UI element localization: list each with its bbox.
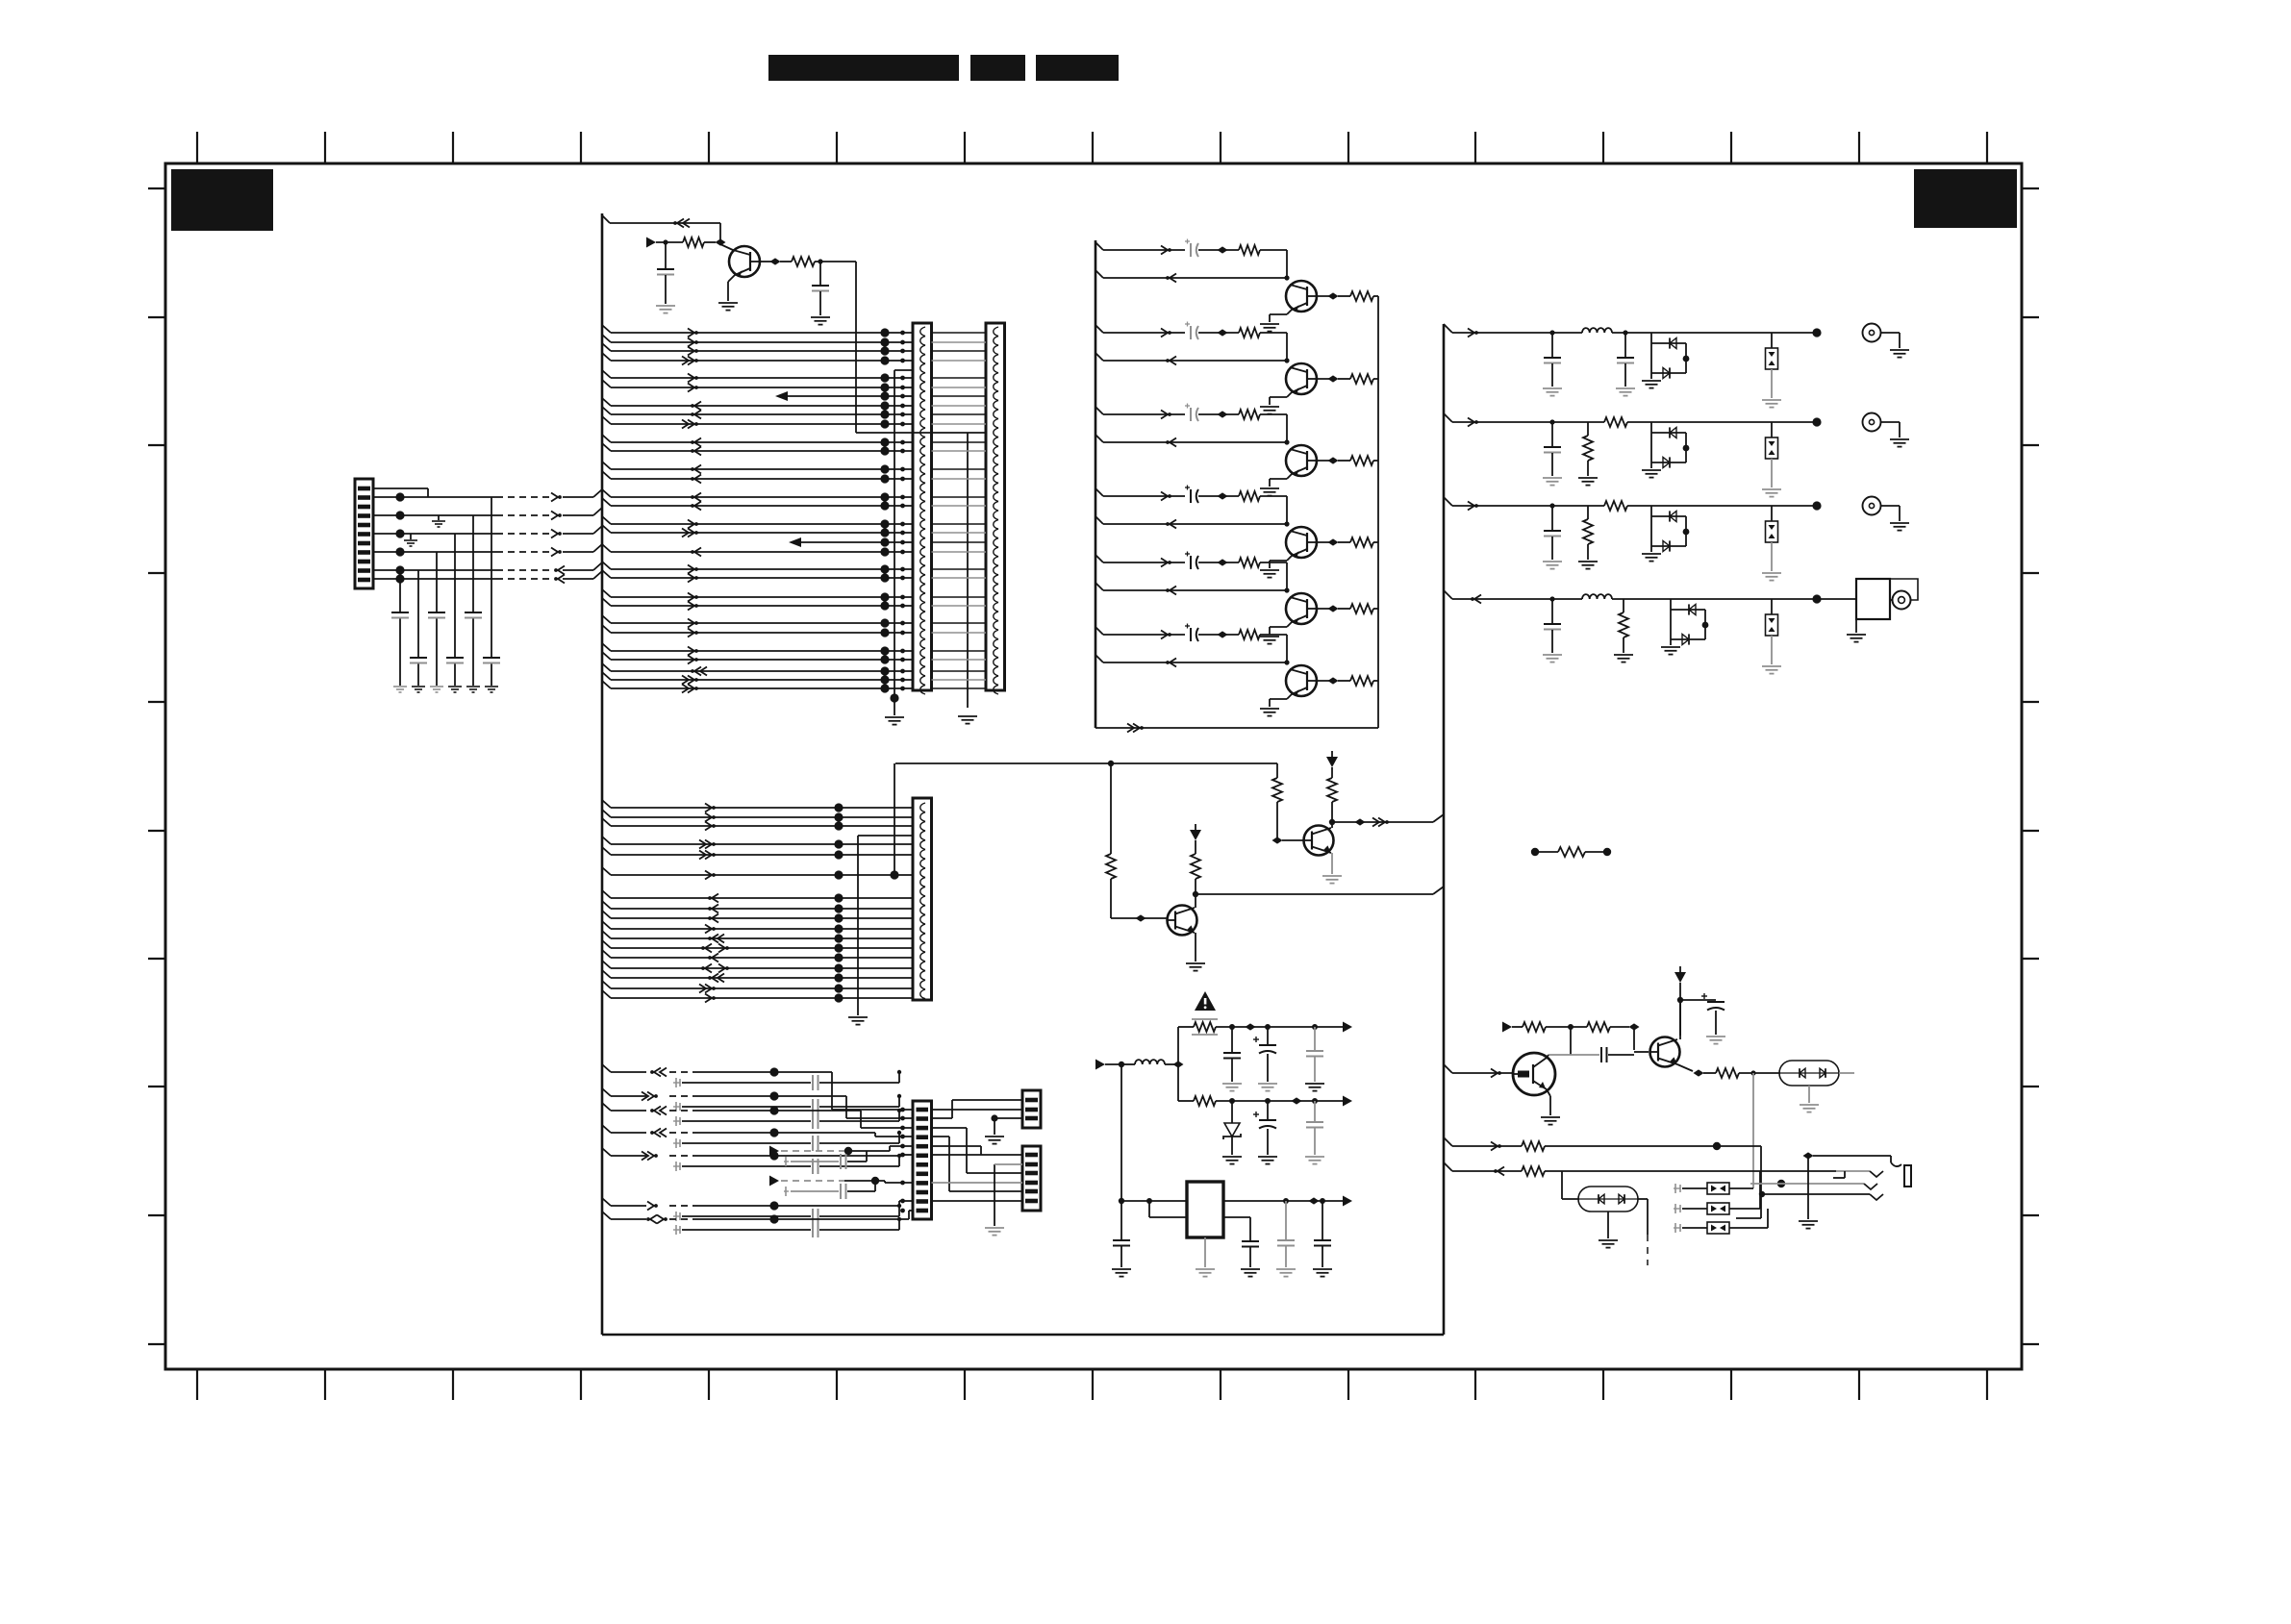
coupling capacitor network: [673, 1215, 680, 1217]
junction diamond: [1629, 1023, 1640, 1030]
wire to transistor: [720, 244, 733, 250]
collector output: [1317, 680, 1333, 682]
title block right (redacted): [1036, 55, 1119, 81]
load resistor: [1350, 537, 1373, 547]
node: [818, 259, 822, 263]
electrolytic capacitor: [1267, 1027, 1269, 1044]
output arrow: [1343, 1096, 1352, 1107]
resistor: [1239, 328, 1260, 337]
array cell return wire: [1095, 353, 1103, 361]
ground: [393, 686, 407, 687]
bus wire row: [602, 471, 611, 479]
ground: [412, 686, 425, 687]
ground: [1543, 654, 1562, 656]
ground: [1260, 708, 1279, 710]
tap down to capsule 2: [1561, 1171, 1563, 1199]
node: [663, 239, 667, 244]
resistor: [1239, 410, 1260, 419]
junction diamond: [1173, 1061, 1184, 1067]
emitter wire: [728, 275, 735, 282]
protection element: [1771, 333, 1773, 348]
wire corner to base node: [1286, 635, 1288, 662]
node: [1283, 1198, 1289, 1204]
connector pin stub wires: [373, 487, 428, 489]
bypass wire: [1223, 1216, 1250, 1218]
ground: [1305, 1156, 1324, 1158]
node: [1312, 1024, 1318, 1030]
ground: [1642, 380, 1661, 382]
zener diode: [1231, 1101, 1233, 1123]
junction diamond: [1218, 411, 1228, 417]
fuse filter row 3: [1674, 1227, 1680, 1229]
jack spring line 2: [1777, 1180, 1785, 1187]
resistor: [1571, 1026, 1587, 1028]
connector CN3: [913, 798, 932, 1000]
array cell input wire: [1095, 555, 1103, 562]
supply arrow: [1674, 972, 1686, 983]
output channel wire: [1444, 590, 1452, 599]
ground: [1642, 553, 1661, 555]
output node: [1812, 328, 1821, 337]
coupling capacitor (polarized): [1190, 326, 1192, 339]
bus wire row: [602, 516, 611, 524]
bus wire row: [602, 562, 611, 569]
connector CN4: [913, 1101, 932, 1219]
collector load resistor: [1195, 840, 1196, 854]
ground: [1762, 665, 1781, 667]
title block bar (redacted): [768, 55, 959, 81]
series resistor: [1604, 501, 1627, 511]
array right rail: [1377, 296, 1379, 728]
ground: [1241, 1268, 1260, 1270]
bias network vertical: [1110, 763, 1112, 854]
bus wire row: [602, 847, 611, 855]
resistor: [1512, 1026, 1523, 1028]
ground: [1260, 569, 1279, 571]
RCA jack: [1863, 413, 1881, 432]
output arrow: [1343, 1022, 1352, 1033]
capacitor: [1285, 1201, 1287, 1239]
bus bottom rail: [602, 1334, 1444, 1337]
wire corner to base node: [1286, 562, 1288, 590]
rail wire: [1216, 1026, 1350, 1028]
wire corner to base node: [1286, 414, 1288, 442]
transistor: [1286, 281, 1317, 312]
shunt resistor: [1623, 599, 1624, 612]
ground: [718, 302, 738, 304]
audio harness wire: [602, 1103, 611, 1111]
audio harness wire: [602, 1198, 611, 1206]
bus wire row: [602, 663, 611, 671]
wire corner to base node: [1286, 333, 1288, 361]
lower rail wire: [1177, 1064, 1179, 1101]
junction dots on harness: [395, 492, 404, 501]
junction: [890, 693, 898, 702]
capacitor C1: [665, 244, 667, 268]
bus wire row: [602, 961, 611, 968]
filter capacitor: [1549, 596, 1554, 601]
collector output: [1317, 460, 1333, 462]
ground: [1890, 522, 1909, 524]
ground: [1222, 1156, 1242, 1158]
node: [1713, 1142, 1721, 1150]
node: [1320, 1198, 1325, 1204]
protection element: [1771, 506, 1773, 521]
wire corner down: [1760, 1146, 1762, 1218]
emitter ground: [1195, 933, 1196, 962]
bus line left (net trunk): [601, 213, 604, 1335]
collector output: [1317, 378, 1333, 380]
coupling capacitor (polarized): [1190, 628, 1192, 641]
capsule 2 ground: [1607, 1212, 1609, 1238]
protection element: [1771, 422, 1773, 437]
resistor: [1239, 558, 1260, 567]
bus wire row: [602, 443, 611, 451]
bus wire row: [602, 489, 611, 497]
ground: [1543, 477, 1562, 479]
transistor: [1286, 593, 1317, 624]
array cell input wire: [1095, 407, 1103, 414]
electrolytic capacitor: [1267, 1101, 1269, 1119]
fuse filter row 2: [1674, 1208, 1680, 1210]
array cell return wire: [1095, 655, 1103, 662]
signal input arrow: [646, 237, 656, 248]
bus wire row: [602, 810, 611, 817]
junction diamond: [1694, 1069, 1704, 1076]
ground: [1762, 572, 1781, 574]
array cell return wire: [1095, 270, 1103, 278]
S-video connector: [1817, 598, 1856, 600]
connector CN5 small: [1022, 1090, 1041, 1128]
transistor Q3: [1304, 826, 1334, 856]
emitter-ground wire: [1287, 622, 1292, 627]
audio harness wire: [602, 1064, 611, 1072]
bias resistor right: [1276, 763, 1278, 778]
audio line R: [1444, 1162, 1452, 1171]
ground: [1706, 1036, 1725, 1037]
route B to connector: [884, 1181, 886, 1183]
coupling capacitor network: [673, 1142, 680, 1144]
emitter-ground wire: [1287, 310, 1292, 314]
jog: [1844, 1171, 1846, 1178]
capacitor: [491, 497, 492, 657]
emitter-ground wire: [1287, 556, 1292, 561]
mini ground tap 2: [410, 534, 412, 539]
clamp diode pair: [1650, 422, 1652, 468]
input capacitor: [1120, 1201, 1122, 1239]
array cell input wire: [1095, 325, 1103, 333]
power arrow: [1326, 757, 1338, 767]
bus wire row: [602, 370, 611, 378]
power arrow: [1190, 830, 1201, 840]
connector CN1 (board-to-board): [913, 323, 932, 690]
emitter-ground wire: [1287, 694, 1292, 699]
route A to connector: [889, 1146, 891, 1151]
resistor: [1194, 1096, 1216, 1106]
ground: [1305, 1083, 1324, 1085]
node: [1146, 1198, 1152, 1204]
jack spring contact R: [1836, 1170, 1870, 1172]
isolator capsule 2: [1578, 1187, 1638, 1212]
wire from upper circuit: [894, 763, 895, 875]
array cell return wire: [1095, 583, 1103, 590]
inter-connector wires: [932, 333, 987, 688]
ground: [1276, 1268, 1296, 1270]
resistor: [1522, 1166, 1545, 1176]
ground: [466, 686, 480, 687]
connector J1: [355, 479, 373, 588]
resistor R2: [792, 257, 815, 266]
output arrow: [1343, 1196, 1352, 1207]
harness wire: [373, 514, 496, 516]
ground: [1762, 399, 1781, 401]
ground: [1260, 487, 1279, 489]
ground: [1260, 636, 1279, 637]
emitter ground: [1331, 853, 1333, 874]
bus wire row: [775, 391, 788, 401]
node: [1119, 1198, 1124, 1204]
coupling capacitor network: [673, 1120, 680, 1122]
supply cap wire: [1680, 999, 1716, 1001]
audio harness wire: [602, 1088, 611, 1096]
bus wire row: [602, 867, 611, 875]
emitter wire: [1677, 1064, 1693, 1071]
bus wire row: [602, 901, 611, 909]
filter capacitor: [1549, 330, 1554, 335]
bus wire row: [602, 990, 611, 998]
connector CN6 small: [1022, 1146, 1041, 1211]
zone label box top-right (redacted): [1914, 169, 2017, 228]
capacitor: [399, 579, 401, 612]
junction diamond: [1292, 1097, 1302, 1104]
wire corner to base node: [1286, 250, 1288, 278]
coupling capacitor network: [673, 1106, 680, 1108]
bus wire row: [602, 462, 611, 469]
capacitor: [1314, 1101, 1316, 1121]
interconnect wires CN4-CN5/CN6: [932, 1109, 1023, 1111]
electrolytic capacitor: [1707, 1001, 1725, 1003]
node: [1265, 1098, 1271, 1104]
array bus vertical: [1095, 240, 1097, 728]
shunt resistor: [1587, 506, 1589, 519]
ground: [1258, 1083, 1277, 1085]
junction diamond: [1218, 246, 1228, 253]
resistor: [1239, 630, 1260, 639]
resistor: [1239, 491, 1260, 501]
load resistor: [1350, 291, 1373, 301]
capacitor: [417, 570, 419, 657]
ground: [1890, 349, 1909, 351]
bus wire row: [602, 353, 611, 361]
node: [1750, 1070, 1755, 1075]
load resistor: [1350, 374, 1373, 384]
junction diamond: [1272, 837, 1283, 843]
bus wire row: [602, 589, 611, 597]
node: [1312, 1098, 1318, 1104]
coupling capacitor network: [673, 1082, 680, 1084]
ground: [1112, 1268, 1131, 1270]
ground: [430, 686, 443, 687]
frame grid ticks: [148, 132, 2039, 1400]
bus2 ground common: [857, 836, 859, 1015]
transistor: [1286, 665, 1317, 696]
resistor R1: [683, 237, 704, 247]
collector wire: [1547, 1055, 1548, 1058]
ground: [485, 686, 498, 687]
regulator input wire: [1121, 1200, 1187, 1202]
regulator output wire: [1223, 1200, 1350, 1202]
bus wire row: [602, 890, 611, 898]
junction diamond: [1246, 1023, 1256, 1030]
enable stub: [1148, 1201, 1150, 1217]
coupling capacitor network: [673, 1229, 680, 1231]
node: [1568, 1024, 1573, 1030]
emitter-ground wire: [1287, 474, 1292, 479]
bus wire row: [602, 416, 611, 424]
ground: [656, 305, 675, 307]
bus wire row: [602, 681, 611, 688]
coupling capacitor (polarized): [1190, 556, 1192, 569]
aux input B: [769, 1176, 779, 1187]
load resistor: [1350, 456, 1373, 465]
base wire: [1111, 917, 1167, 919]
node: [1193, 891, 1198, 897]
node: [1229, 1024, 1235, 1030]
capacitor: [436, 552, 438, 612]
harness wire: [373, 551, 496, 553]
audio harness wire: [602, 1125, 611, 1133]
chevron pair on feedback line: [677, 219, 684, 228]
ground: [1661, 646, 1680, 648]
fusible resistor: [1194, 1022, 1216, 1032]
coupling link: [1570, 1027, 1572, 1055]
transistor Q1: [729, 246, 760, 277]
bus1 common line A: [894, 370, 895, 698]
capacitor: [1548, 1054, 1599, 1056]
resistor: [1703, 1072, 1716, 1074]
junction diamond: [1218, 329, 1228, 336]
jack contact bar: [1904, 1165, 1911, 1187]
bus wire row: [602, 643, 611, 651]
coupling capacitor network: [673, 1165, 680, 1167]
aux input A: [769, 1146, 779, 1157]
collector to supply: [1679, 1000, 1681, 1039]
resistor: [1522, 1141, 1545, 1151]
load resistor: [1350, 604, 1373, 613]
node: [1677, 997, 1683, 1003]
ground: [1642, 469, 1661, 471]
bus wire row: [789, 537, 801, 547]
audio harness wire: [602, 1212, 611, 1219]
emitter wire: [1547, 1089, 1550, 1096]
junction diamond: [716, 238, 726, 245]
bus wire row: [602, 615, 611, 623]
emitter-ground wire: [1287, 392, 1292, 397]
transistor Q2: [1168, 906, 1197, 936]
bus wire row: [602, 921, 611, 929]
ground tap 2: [994, 1164, 995, 1226]
ground: [1541, 1116, 1560, 1118]
ground: [1258, 1156, 1277, 1158]
title block small (redacted): [970, 55, 1025, 81]
aux cap A: [784, 1161, 789, 1162]
collector output: [1317, 541, 1333, 543]
ground: [1847, 634, 1866, 636]
capacitor: [1322, 1201, 1323, 1239]
filter capacitor: [1549, 419, 1554, 424]
output node: [1812, 594, 1821, 603]
harness wire: [373, 578, 496, 580]
junction diamond: [1136, 914, 1146, 921]
bus wire row: [602, 970, 611, 978]
clamp diode pair: [1650, 506, 1652, 552]
load resistor: [1350, 676, 1373, 686]
ground: [1543, 561, 1562, 562]
protection element: [1771, 599, 1773, 614]
harness wire: [373, 569, 496, 571]
zone label box top-left (redacted): [171, 169, 273, 231]
output wire to bus: [1332, 821, 1433, 823]
array bottom return: [1095, 727, 1378, 729]
junction diamond: [1309, 1197, 1320, 1204]
junction diamond: [1218, 631, 1228, 637]
capsule output stub: [1839, 1072, 1854, 1074]
bus wire row: [602, 950, 611, 958]
ground: [1543, 387, 1562, 389]
base feed wire: [1633, 1027, 1635, 1050]
array cell input wire: [1095, 242, 1103, 250]
collector output: [1317, 295, 1333, 297]
transistor Q4 (digital): [1513, 1053, 1555, 1095]
transistor: [1286, 363, 1317, 394]
bus wire row: [602, 407, 611, 414]
net vertical: [1752, 1073, 1754, 1188]
net wire horizontal: [895, 762, 1277, 764]
junction diamond: [770, 258, 781, 264]
wire: [719, 223, 721, 242]
ground: [1762, 488, 1781, 490]
node: [1265, 1024, 1271, 1030]
bus wire row: [602, 398, 611, 406]
warning triangle: [1195, 991, 1216, 1011]
junction diamond: [1218, 492, 1228, 499]
dashed net: [1647, 1235, 1649, 1265]
inductor: [1582, 328, 1612, 333]
supply wire: [1679, 983, 1681, 1036]
capacitor: [1242, 1240, 1259, 1242]
jack ground: [1807, 1156, 1809, 1219]
output channel wire: [1444, 413, 1452, 422]
output channel wire: [1444, 324, 1452, 333]
coupling capacitor (polarized): [1190, 408, 1192, 421]
isolated resistor link: [1531, 848, 1539, 856]
bus wire row: [602, 940, 611, 948]
collector resistor: [1331, 767, 1333, 778]
upper rail wire: [1177, 1027, 1179, 1064]
rail wire: [1216, 1100, 1350, 1102]
input arrow: [1502, 1022, 1512, 1033]
filter capacitor: [1549, 503, 1554, 508]
mini ground tap 1: [438, 515, 440, 520]
shunt resistor: [1587, 422, 1589, 436]
ground: [448, 686, 462, 687]
voltage regulator U1: [1187, 1182, 1223, 1237]
interconnect: [932, 1127, 968, 1129]
bus wire row: [602, 672, 611, 680]
headphone jack tip line: [1803, 1152, 1814, 1159]
wire top feedback line: [610, 222, 720, 224]
node: [1229, 1098, 1235, 1104]
